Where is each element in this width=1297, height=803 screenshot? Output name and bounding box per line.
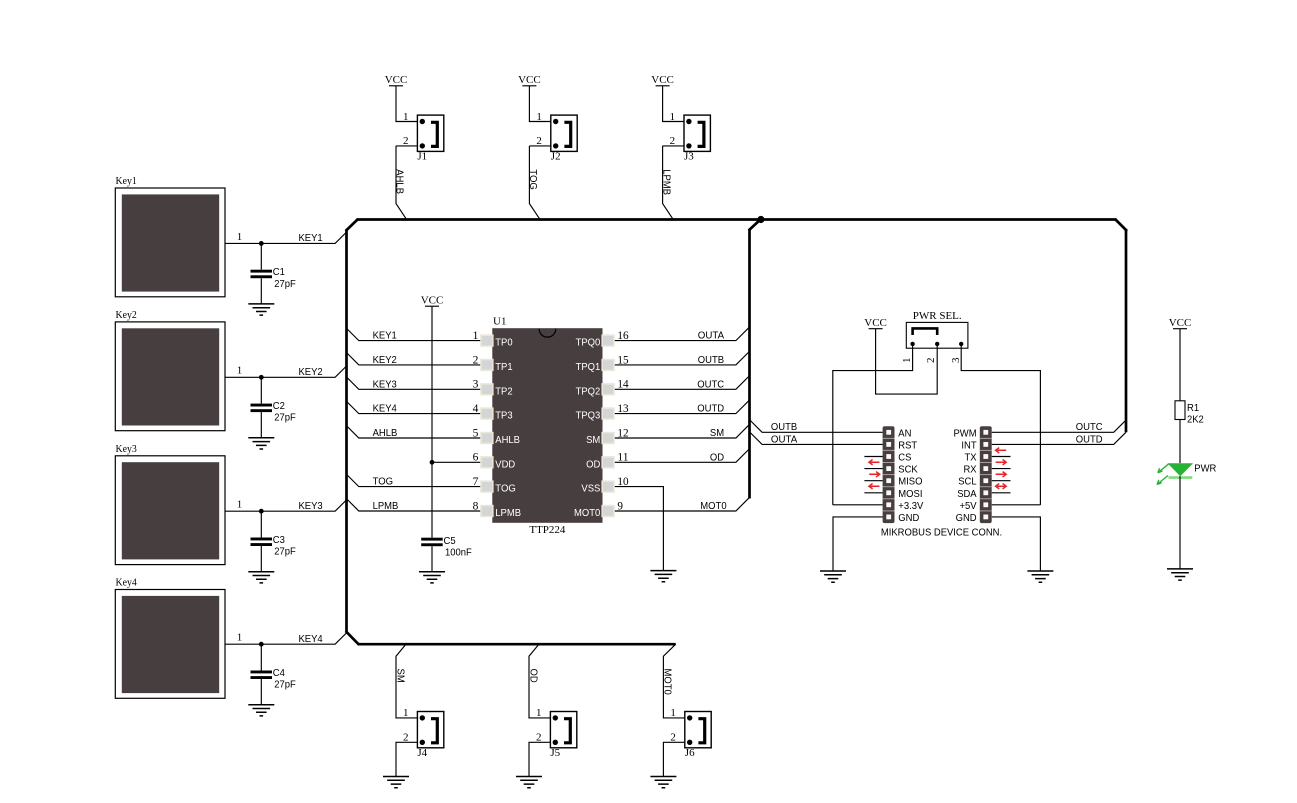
svg-text:1: 1 — [403, 707, 409, 719]
node bus junction at top — [757, 216, 764, 223]
wire net SM from pin 12 to bus — [615, 425, 749, 439]
wire net AHLB from bus to pin 5 — [347, 426, 480, 439]
ground at C2 — [248, 438, 274, 449]
svg-text:TPQ3: TPQ3 — [576, 410, 601, 422]
jumper PWR SEL — [906, 310, 968, 348]
svg-text:27pF: 27pF — [274, 412, 296, 424]
pin label MISO — [898, 476, 922, 488]
power VCC for J1 — [385, 74, 408, 86]
wire J2 pin 2 — [529, 135, 550, 147]
arrow SCK-MISO — [869, 472, 880, 477]
svg-text:VCC: VCC — [1169, 317, 1192, 329]
svg-text:KEY1: KEY1 — [299, 232, 323, 244]
svg-text:J4: J4 — [417, 747, 427, 759]
wire net OUTC from PWM to bus — [992, 420, 1126, 433]
wire net KEY4 from bus to pin 4 — [347, 402, 480, 415]
svg-text:J2: J2 — [551, 151, 561, 163]
pin 2 pad — [473, 354, 513, 373]
bus top-right chamfer — [1116, 220, 1128, 232]
arrow SCL-SDA — [996, 484, 1007, 489]
pin 10 pad — [581, 476, 628, 495]
capacitor C2 27pF — [251, 377, 296, 438]
svg-text:AHLB: AHLB — [394, 169, 406, 194]
svg-text:Key2: Key2 — [116, 309, 137, 321]
wire stub MOSI — [864, 492, 882, 494]
pin 16 pad — [576, 330, 629, 349]
svg-text:KEY1: KEY1 — [373, 330, 397, 342]
jumper J5 — [550, 712, 576, 759]
svg-text:VCC: VCC — [518, 74, 541, 86]
wire +5V row — [992, 504, 1041, 506]
svg-text:LPMB: LPMB — [373, 500, 399, 512]
wire VCC to J3 pin 1 — [663, 86, 684, 123]
pin label RST — [898, 439, 917, 451]
touch pad Key1 — [115, 175, 225, 297]
pin 3 label — [950, 357, 962, 363]
svg-text:2K2: 2K2 — [1187, 414, 1204, 426]
svg-text:1: 1 — [237, 499, 243, 511]
wire PWR SEL pin 1 to +3.3V — [833, 344, 913, 505]
wire net OUTD from INT to bus — [992, 432, 1126, 445]
svg-text:OUTB: OUTB — [771, 421, 797, 433]
pin 15 pad — [576, 354, 629, 373]
pin 1 label — [901, 358, 913, 364]
wire net MOT0 from pin 9 to bus — [615, 498, 749, 512]
touch pad Key3 — [115, 443, 225, 565]
svg-text:OUTD: OUTD — [1076, 433, 1103, 445]
jumper J3 — [684, 115, 710, 162]
svg-text:SM: SM — [710, 427, 724, 439]
node VDD junction — [430, 460, 435, 465]
jumper J4 — [417, 712, 443, 759]
pin 11 pad — [586, 452, 629, 471]
pin label RX — [964, 464, 977, 476]
svg-text:1: 1 — [670, 111, 676, 123]
node key1 junction — [259, 241, 264, 246]
svg-text:VDD: VDD — [495, 458, 515, 470]
power VCC at PWR SEL — [864, 317, 887, 329]
svg-text:KEY4: KEY4 — [299, 633, 323, 645]
touch pad Key4 — [115, 577, 225, 699]
svg-text:AHLB: AHLB — [495, 434, 520, 446]
svg-text:1: 1 — [670, 707, 676, 719]
svg-text:OUTC: OUTC — [697, 378, 724, 390]
svg-text:OUTA: OUTA — [771, 433, 797, 445]
wire +3.3V row — [833, 504, 883, 506]
wire stub CS — [864, 456, 882, 458]
bus bottom-left chamfer — [346, 631, 359, 644]
wire J1 pin 2 — [396, 135, 417, 147]
svg-text:KEY3: KEY3 — [373, 378, 397, 390]
power VCC for J2 — [518, 74, 541, 86]
svg-text:TTP224: TTP224 — [529, 524, 566, 536]
svg-text:TOG: TOG — [373, 476, 394, 488]
LED PWR — [1157, 463, 1217, 485]
svg-text:+5V: +5V — [960, 500, 977, 512]
power VCC for R1 — [1169, 317, 1192, 329]
svg-text:TP2: TP2 — [495, 385, 512, 397]
wire net OD from bus to J5 — [529, 644, 550, 719]
capacitor C5 100nF — [421, 535, 472, 572]
wire J3 pin 2 — [663, 135, 684, 147]
arrow INT-TX — [996, 448, 1007, 453]
pin label GND — [956, 512, 977, 524]
wire net OUTB from bus to AN — [750, 420, 883, 433]
wire net MOT0 from bus to J6 — [663, 644, 684, 719]
svg-text:TP3: TP3 — [495, 410, 512, 422]
wire stub SDA — [992, 492, 1011, 494]
bus left vertical — [345, 230, 348, 632]
ground at mikrobus left — [820, 571, 846, 582]
svg-text:1: 1 — [237, 365, 243, 377]
touch pad Key2 — [115, 309, 225, 431]
wire GND right to ground — [992, 517, 1041, 571]
pin label PWM — [954, 427, 977, 439]
svg-text:SM: SM — [586, 434, 600, 446]
svg-text:1: 1 — [536, 707, 542, 719]
wire GND left to ground — [833, 517, 883, 571]
svg-text:MISO: MISO — [898, 476, 922, 488]
wire stub SCK — [864, 468, 882, 470]
svg-text:OUTC: OUTC — [1076, 421, 1103, 433]
wire VCC to J1 pin 1 — [396, 86, 417, 123]
label mikrobus caption — [881, 526, 1002, 538]
svg-text:OUTD: OUTD — [697, 403, 724, 415]
wire KEY2 net to bus — [261, 366, 347, 379]
svg-text:PWR: PWR — [1194, 463, 1216, 475]
ground at mikrobus right — [1027, 571, 1053, 582]
svg-text:KEY2: KEY2 — [373, 354, 397, 366]
svg-text:2: 2 — [403, 732, 409, 744]
svg-text:TPQ0: TPQ0 — [576, 337, 601, 349]
pin 8 pad — [473, 500, 521, 519]
svg-text:TP1: TP1 — [495, 361, 512, 373]
svg-text:27pF: 27pF — [274, 546, 296, 558]
pin label SCK — [898, 464, 917, 476]
net label LPMB — [660, 169, 672, 195]
svg-text:VSS: VSS — [581, 483, 600, 495]
svg-text:VCC: VCC — [651, 74, 674, 86]
arrow TX-RX — [996, 460, 1007, 465]
wire net OUTA from pin 16 to bus — [615, 327, 749, 341]
wire net TOG from bus to pin 7 — [347, 475, 480, 488]
svg-text:OD: OD — [710, 451, 725, 463]
ground at VSS — [650, 571, 676, 582]
svg-text:TPQ1: TPQ1 — [576, 361, 601, 373]
svg-text:SM: SM — [394, 669, 406, 683]
svg-text:LPMB: LPMB — [495, 507, 521, 519]
svg-text:2: 2 — [670, 732, 676, 744]
pin label INT — [961, 439, 977, 451]
pin label CS — [898, 452, 911, 464]
wire VCC to PWR SEL pin 2 — [876, 329, 938, 394]
node key2 junction — [259, 375, 264, 380]
pin 6 pad — [473, 452, 516, 471]
pin 13 pad — [576, 403, 629, 422]
node key3 junction — [259, 509, 264, 514]
svg-text:3: 3 — [950, 357, 962, 363]
svg-text:C5: C5 — [444, 535, 456, 547]
power VCC for J3 — [651, 74, 674, 86]
svg-text:1: 1 — [237, 231, 243, 243]
svg-text:OUTB: OUTB — [698, 354, 724, 366]
connector mikrobus left header — [883, 426, 895, 523]
net label TOG — [527, 169, 539, 190]
wire R1 to LED — [1179, 420, 1181, 464]
ground at J5 — [516, 777, 542, 788]
svg-text:OUTA: OUTA — [698, 330, 724, 342]
svg-text:2: 2 — [403, 135, 409, 147]
resistor R1 2K2 — [1175, 401, 1204, 426]
svg-text:C2: C2 — [273, 400, 285, 412]
svg-text:VCC: VCC — [385, 74, 408, 86]
wire PWR SEL pin 3 to +5V — [961, 344, 1040, 505]
pin 12 pad — [586, 427, 629, 446]
arrow RX-SCL — [996, 472, 1007, 477]
svg-text:2: 2 — [536, 732, 542, 744]
bus bottom horizontal — [358, 643, 676, 646]
svg-text:AHLB: AHLB — [373, 427, 398, 439]
wire J6 pin 2 to ground — [663, 732, 684, 777]
svg-text:LPMB: LPMB — [660, 169, 672, 195]
ground at C5 — [419, 572, 445, 583]
svg-text:C3: C3 — [273, 534, 285, 546]
wire Key2 pin 1 to junction — [225, 365, 261, 378]
capacitor C1 27pF — [251, 243, 296, 304]
pin 3 pad — [473, 379, 513, 398]
svg-text:J3: J3 — [684, 151, 694, 163]
wire net OUTB from pin 15 to bus — [615, 352, 749, 366]
wire VCC to R1 — [1179, 329, 1181, 401]
svg-text:27pF: 27pF — [274, 278, 296, 290]
wire net KEY3 from bus to pin 3 — [347, 377, 480, 390]
arrow MISO-MOSI — [869, 484, 880, 489]
pin 14 pad — [576, 379, 629, 398]
svg-text:100nF: 100nF — [445, 547, 472, 559]
wire stub SCL — [992, 480, 1011, 482]
wire KEY1 net to bus — [261, 232, 347, 245]
pin label SDA — [957, 488, 976, 500]
pin 1 pad — [473, 330, 513, 349]
svg-text:Key1: Key1 — [116, 175, 137, 187]
svg-text:GND: GND — [956, 512, 977, 524]
wire net OUTC from pin 14 to bus — [615, 376, 749, 390]
svg-text:1: 1 — [536, 111, 542, 123]
svg-text:VCC: VCC — [421, 295, 444, 307]
svg-text:1: 1 — [403, 111, 409, 123]
net label AHLB — [394, 169, 406, 194]
svg-text:PWM: PWM — [954, 427, 977, 439]
svg-text:KEY2: KEY2 — [299, 366, 323, 378]
bus right vertical — [1125, 230, 1128, 432]
wire net OD from pin 11 to bus — [615, 449, 749, 463]
wire net LPMB from bus to pin 8 — [347, 499, 480, 512]
wire net AHLB from J1 to bus — [396, 146, 406, 219]
wire net OUTD from pin 13 to bus — [615, 400, 749, 414]
svg-text:VCC: VCC — [864, 317, 887, 329]
wire net KEY1 from bus to pin 1 — [347, 329, 480, 342]
pin 4 pad — [473, 403, 513, 422]
pin 5 pad — [473, 427, 520, 446]
wire stub TX — [992, 456, 1011, 458]
svg-text:2: 2 — [536, 135, 542, 147]
svg-text:MOT0: MOT0 — [574, 507, 600, 519]
arrow CS-SCK — [869, 460, 880, 465]
bus middle vertical — [748, 230, 751, 499]
jumper J6 — [685, 712, 711, 759]
wire VCC to VDD pin 6 and C5 — [432, 306, 480, 538]
wire KEY3 net to bus — [261, 499, 347, 512]
svg-text:R1: R1 — [1187, 402, 1199, 414]
svg-text:1: 1 — [237, 632, 243, 644]
ground at C1 — [248, 304, 274, 315]
power VCC for U1 — [421, 295, 444, 307]
svg-text:MOT0: MOT0 — [662, 669, 674, 695]
pin label MOSI — [898, 488, 922, 500]
pin label +3.3V — [898, 500, 923, 512]
ground at J6 — [650, 777, 676, 788]
capacitor C4 27pF — [251, 644, 296, 705]
svg-text:RST: RST — [898, 439, 917, 451]
svg-text:J5: J5 — [550, 747, 560, 759]
svg-text:KEY3: KEY3 — [299, 500, 323, 512]
svg-text:SDA: SDA — [957, 488, 976, 500]
wire KEY4 net to bus — [261, 632, 347, 645]
pin label TX — [965, 452, 977, 464]
svg-text:GND: GND — [898, 512, 919, 524]
svg-text:2: 2 — [925, 358, 937, 364]
svg-text:MIKROBUS DEVICE CONN.: MIKROBUS DEVICE CONN. — [881, 526, 1002, 538]
pin label SCL — [958, 476, 977, 488]
wire stub MISO — [864, 480, 882, 482]
ground at LED — [1167, 569, 1193, 580]
wire stub RX — [992, 468, 1011, 470]
ground at J4 — [383, 777, 409, 788]
wire J5 pin 2 to ground — [529, 732, 550, 777]
svg-text:CS: CS — [898, 452, 911, 464]
net label SM — [394, 669, 406, 683]
bus top horizontal — [357, 218, 1117, 221]
wire net KEY2 from bus to pin 2 — [347, 353, 480, 366]
svg-text:J6: J6 — [685, 747, 695, 759]
connector mikrobus right header — [980, 426, 992, 523]
svg-text:TX: TX — [965, 452, 977, 464]
wire J4 pin 2 to ground — [396, 732, 417, 777]
wire net TOG from J2 to bus — [529, 146, 539, 219]
net label OD — [527, 669, 539, 684]
svg-text:KEY4: KEY4 — [373, 403, 397, 415]
jumper J1 — [417, 115, 443, 162]
svg-text:MOT0: MOT0 — [700, 500, 726, 512]
svg-text:1: 1 — [901, 358, 913, 364]
svg-text:OD: OD — [586, 458, 601, 470]
pin label +5V — [960, 500, 977, 512]
pin 9 pad — [574, 500, 623, 519]
svg-text:OD: OD — [527, 669, 539, 684]
svg-text:PWR SEL.: PWR SEL. — [913, 310, 962, 322]
jumper J2 — [551, 115, 577, 162]
wire VCC to J2 pin 1 — [529, 86, 550, 123]
svg-text:TP0: TP0 — [495, 337, 512, 349]
svg-text:TOG: TOG — [495, 483, 516, 495]
net label MOT0 — [662, 669, 674, 695]
svg-text:C4: C4 — [273, 667, 285, 679]
svg-text:TOG: TOG — [527, 169, 539, 190]
pin 2 label — [925, 358, 937, 364]
svg-text:Key3: Key3 — [116, 443, 138, 455]
pin label AN — [898, 427, 911, 439]
wire Key3 pin 1 to junction — [225, 499, 261, 512]
ground at C3 — [248, 572, 274, 583]
ground at C4 — [248, 705, 274, 716]
svg-text:27pF: 27pF — [274, 679, 296, 691]
svg-text:MOSI: MOSI — [898, 488, 922, 500]
wire net OUTA from bus to RST — [750, 432, 883, 445]
wire Key4 pin 1 to junction — [225, 632, 261, 645]
wire net LPMB from J3 to bus — [663, 146, 673, 219]
svg-text:SCL: SCL — [958, 476, 977, 488]
bus middle-top chamfer — [749, 219, 762, 231]
svg-text:INT: INT — [961, 439, 977, 451]
svg-text:SCK: SCK — [898, 464, 917, 476]
svg-text:2: 2 — [670, 135, 676, 147]
pin 7 pad — [473, 476, 516, 495]
wire LED to ground — [1179, 476, 1181, 569]
IC U1 TTP224 body — [492, 316, 602, 537]
node key4 junction — [259, 642, 264, 647]
svg-text:TPQ2: TPQ2 — [576, 385, 601, 397]
svg-text:Key4: Key4 — [116, 577, 138, 589]
wire VSS pin 10 to ground — [615, 487, 664, 571]
svg-text:J1: J1 — [417, 151, 427, 163]
svg-text:AN: AN — [898, 427, 911, 439]
bus top-left chamfer — [346, 220, 358, 232]
pin label GND — [898, 512, 919, 524]
svg-text:U1: U1 — [493, 316, 506, 328]
svg-text:RX: RX — [964, 464, 977, 476]
wire Key1 pin 1 to junction — [225, 231, 261, 244]
capacitor C3 27pF — [251, 511, 296, 572]
svg-text:C1: C1 — [273, 266, 285, 278]
wire net SM from bus to J4 — [396, 644, 417, 719]
svg-text:+3.3V: +3.3V — [898, 500, 923, 512]
